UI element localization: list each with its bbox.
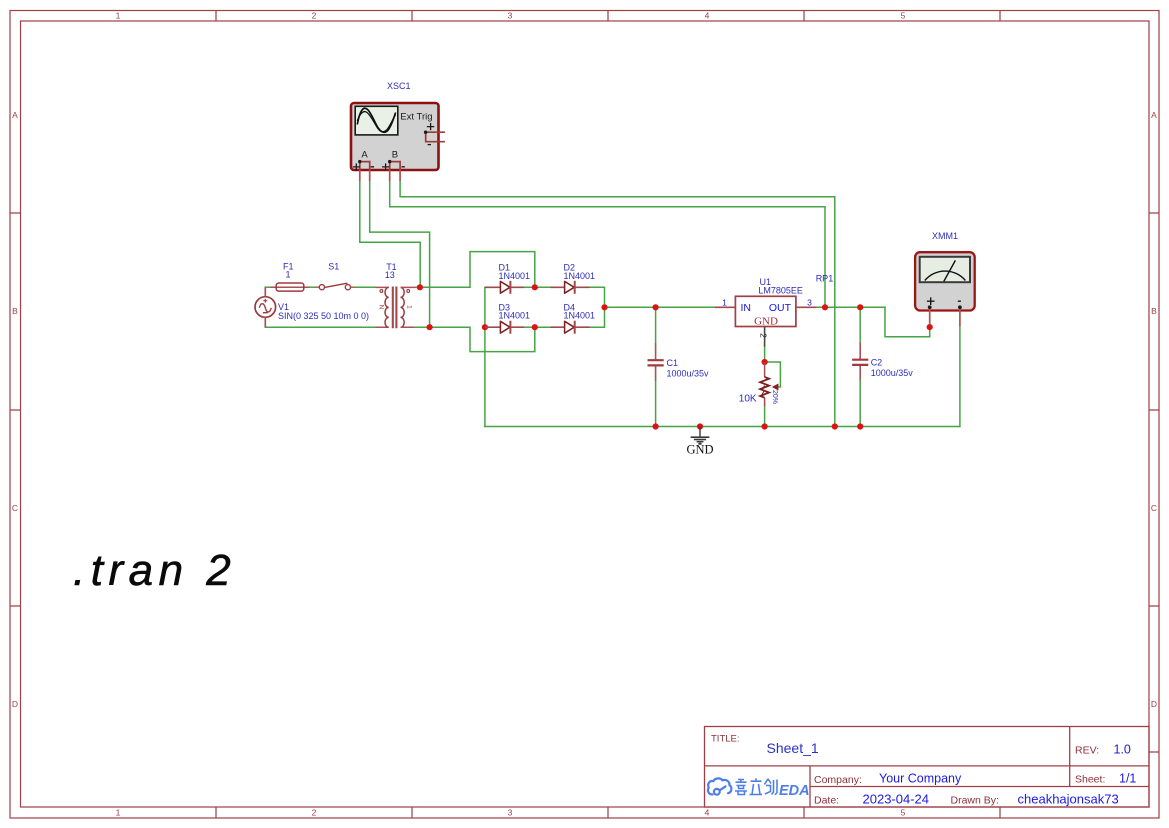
svg-text:1N4001: 1N4001 (499, 311, 531, 321)
svg-text:3: 3 (508, 808, 513, 818)
svg-text:GND: GND (686, 443, 713, 457)
svg-text:XSC1: XSC1 (387, 81, 411, 91)
scope channel B pins (390, 162, 400, 170)
svg-text:Your Company: Your Company (879, 772, 962, 786)
wire scope B- to ground rail (400, 181, 835, 427)
node AC1 D1-D2 (532, 284, 538, 290)
diode D4 (551, 321, 590, 334)
svg-text:3: 3 (508, 11, 513, 21)
wire multimeter minus down to rail (959, 326, 961, 426)
svg-text:B: B (12, 306, 18, 316)
wire D1 cathode to AC1 node (524, 286, 535, 288)
logo text jia (735, 780, 747, 795)
ground symbol GND (691, 427, 710, 445)
svg-text:N: N (378, 305, 385, 310)
JLC EDA logo (708, 778, 810, 799)
wire potentiometer bottom to rail (764, 406, 766, 427)
potentiometer RP1 (760, 362, 778, 406)
svg-text:LM7805EE: LM7805EE (758, 286, 803, 296)
svg-text:3: 3 (807, 298, 812, 308)
transformer T1 (375, 287, 415, 329)
wire U1 GND pin to potentiometer (764, 347, 766, 362)
node DC+ (601, 304, 607, 310)
svg-text:A: A (1151, 110, 1157, 120)
svg-text:5: 5 (901, 808, 906, 818)
node rail GND (697, 423, 703, 429)
WIRES (265, 181, 960, 427)
title block outline (705, 727, 1150, 808)
scope ext trig minus sign (428, 144, 431, 146)
svg-text:1.0: 1.0 (1114, 742, 1131, 756)
logo text li (750, 778, 763, 794)
frame column numbers bottom (116, 808, 906, 818)
scope channel A pins (360, 162, 370, 170)
frame column numbers top (116, 11, 906, 21)
svg-text:SIN(0 325 50 10m 0 0): SIN(0 325 50 10m 0 0) (278, 311, 369, 321)
wire D4 cathode to DC+ corner (590, 307, 605, 327)
wire U1 OUT to C2 and corner (816, 306, 885, 308)
scope pin stubs below body (360, 170, 400, 181)
node C2 top (857, 304, 863, 310)
wire scope A- down to secondary bottom node (370, 181, 430, 327)
node T1 secondary bottom / scope A- (427, 324, 433, 330)
wire scope B+ to U1 OUT node (390, 181, 825, 307)
rev column divider (1069, 727, 1071, 787)
diode D1 (485, 281, 524, 294)
oscilloscope XSC1 (351, 103, 445, 181)
svg-text:Sheet_1: Sheet_1 (767, 740, 819, 756)
svg-text:D: D (1151, 699, 1157, 709)
svg-text:C1: C1 (667, 358, 679, 368)
svg-text:5: 5 (901, 11, 906, 21)
svg-text:Company:: Company: (814, 774, 862, 786)
svg-text:13: 13 (385, 270, 395, 280)
svg-text:B: B (392, 149, 398, 160)
wire corner down to multimeter plus (885, 307, 930, 336)
regulator U1 LM7805EE (715, 296, 817, 346)
voltage source V1 (255, 287, 276, 327)
wire DC+ node to C1 and U1 IN (605, 306, 715, 308)
switch S1 (315, 283, 354, 290)
svg-text:A: A (12, 110, 18, 120)
svg-text:1: 1 (116, 11, 121, 21)
svg-text:Ext Trig: Ext Trig (400, 111, 432, 122)
wire C1 top lead (655, 307, 657, 343)
top column ticks (216, 11, 1000, 22)
wire T1 secondary top to bridge AC1 staircase (415, 252, 535, 288)
svg-text:RP1: RP1 (816, 274, 834, 284)
wire D2 cathode to DC+ corner (590, 287, 605, 307)
wire fuse to switch (309, 286, 315, 288)
wire switch to T1 primary top (355, 286, 376, 288)
svg-text:D: D (12, 699, 18, 709)
multimeter pin dots (928, 305, 932, 309)
node D3 anode / rail branch (482, 324, 488, 330)
svg-text:A: A (361, 149, 368, 160)
scope ext trig pin (426, 132, 445, 142)
node U1 OUT / scope B+ (822, 304, 828, 310)
multimeter needle (944, 260, 956, 281)
title block texts (711, 734, 740, 745)
left row ticks (10, 213, 21, 606)
scope screen sine waves (357, 108, 395, 132)
wire C1 bottom lead to rail (655, 381, 657, 427)
svg-text:1N4001: 1N4001 (499, 271, 531, 281)
wire C2 bottom lead to rail (859, 381, 861, 427)
multimeter XMM1 (915, 252, 975, 326)
svg-text:2: 2 (312, 11, 317, 21)
capacitor C1 (648, 343, 664, 380)
wire scope A+ down to secondary top node (360, 181, 420, 287)
multimeter scale arc (925, 271, 966, 280)
wire AC2 node to D4 anode (535, 326, 551, 328)
svg-text:1N4001: 1N4001 (564, 311, 596, 321)
svg-text:20%: 20% (771, 390, 778, 404)
logo cloud icon (708, 778, 731, 794)
frame row letters right (1151, 110, 1157, 709)
scope channel B plus minus (382, 163, 405, 170)
row divider 1 (705, 765, 1150, 767)
row divider 2 (810, 786, 1149, 788)
diode D3 (485, 321, 524, 334)
node rail pot (762, 423, 768, 429)
svg-text:C: C (1151, 503, 1157, 513)
svg-text:10K: 10K (739, 394, 757, 405)
multimeter plus sign (927, 297, 935, 305)
node rail scope B- (832, 423, 838, 429)
wire D3 cathode to AC2 node (524, 326, 535, 328)
svg-text:IN: IN (741, 302, 752, 314)
right row ticks (1149, 213, 1159, 752)
svg-text:4: 4 (705, 808, 710, 818)
svg-text:4: 4 (705, 11, 710, 21)
node pot top (762, 359, 768, 365)
svg-text:OUT: OUT (769, 302, 792, 314)
svg-text:EDA: EDA (779, 783, 810, 799)
logo cell divider (809, 766, 811, 807)
svg-text:1/1: 1/1 (1119, 772, 1136, 786)
multimeter minus sign (958, 300, 961, 302)
node T1 secondary top / scope A+ (417, 284, 423, 290)
svg-text:Drawn By:: Drawn By: (951, 795, 999, 807)
svg-text:XMM1: XMM1 (932, 231, 958, 241)
fuse F1 (270, 283, 309, 291)
svg-text:cheakhajonsak73: cheakhajonsak73 (1018, 792, 1119, 807)
TITLE BLOCK (705, 727, 1150, 808)
wire V1 bottom to T1 primary bottom (265, 326, 375, 328)
svg-text:2: 2 (759, 333, 769, 338)
svg-text:Sheet:: Sheet: (1075, 774, 1105, 786)
svg-text:Date:: Date: (814, 795, 839, 807)
svg-text:S1: S1 (328, 262, 339, 272)
node rail C2 (857, 423, 863, 429)
capacitor C2 (852, 343, 868, 381)
svg-text:1: 1 (286, 270, 291, 280)
svg-text:TITLE:: TITLE: (711, 734, 740, 745)
svg-text:1000u/35v: 1000u/35v (871, 368, 914, 378)
node C1 top (653, 304, 659, 310)
wire C2 top lead (859, 307, 861, 342)
svg-text:2023-04-24: 2023-04-24 (863, 792, 930, 807)
svg-text:C2: C2 (871, 357, 883, 367)
scope channel A plus minus (353, 163, 374, 170)
node AC2 D3-D4 (532, 324, 538, 330)
svg-text:REV:: REV: (1075, 744, 1099, 756)
wire T1 secondary bottom to bridge AC2 staircase (414, 327, 535, 351)
svg-text:1N4001: 1N4001 (564, 271, 596, 281)
svg-text:GND: GND (754, 316, 778, 328)
multimeter pin stubs (930, 309, 960, 326)
node multimeter plus (927, 324, 933, 330)
wire AC1 node to D2 anode (535, 286, 551, 288)
diode D2 (551, 281, 590, 294)
svg-text:B: B (1151, 306, 1157, 316)
svg-text:2: 2 (312, 808, 317, 818)
logo text chuang (765, 779, 778, 795)
frame row letters left (12, 110, 18, 709)
scope ext trig plus sign (427, 123, 434, 130)
node rail C1 (653, 423, 659, 429)
bottom column ticks (216, 807, 1000, 818)
svg-text:1: 1 (405, 305, 412, 309)
JUNCTION DOTS (417, 284, 933, 429)
wire V1 top to fuse (265, 286, 276, 288)
wire potentiometer wiper loop (765, 362, 781, 387)
svg-text:1: 1 (116, 808, 121, 818)
ground rail (485, 426, 960, 428)
wire D1 anode down to D3 anode (484, 287, 486, 327)
wire D3 anode node down to ground rail (484, 327, 486, 426)
svg-text:C: C (12, 503, 18, 513)
svg-text:1000u/35v: 1000u/35v (667, 369, 710, 379)
svg-text:.tran 2: .tran 2 (73, 546, 236, 595)
svg-text:1: 1 (722, 298, 727, 308)
